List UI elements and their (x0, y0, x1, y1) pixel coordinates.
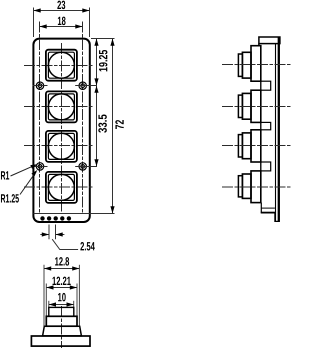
protrusion P4 base (251, 171, 261, 203)
dim 2.54 leader (52, 239, 78, 249)
hole column line right (82, 22, 84, 214)
button S3 circle (48, 133, 74, 159)
dim 23 extension lines (34, 8, 90, 38)
dim 18 arrows (40, 24, 83, 28)
text 33.5 (98, 115, 107, 133)
protrusion P4 cap (238, 176, 242, 197)
text 2.54 (80, 242, 94, 251)
protrusion P1 tip (242, 52, 251, 78)
dim 2.54 arrows (42, 232, 63, 236)
button S3 inner square (48, 133, 74, 159)
bottom view step block (46, 316, 77, 326)
bottom view trapezoid (43, 326, 82, 336)
text 19.25 (99, 50, 108, 71)
mounting hole row1 right (75, 82, 97, 89)
side center line S4 (222, 186, 291, 188)
tab T1 (261, 81, 271, 90)
front body bottom strip line / 72 lower extension (34, 213, 115, 215)
text 18 (58, 17, 66, 26)
mounting hole row1 left (33, 82, 48, 89)
tab T3 (261, 162, 271, 171)
hole column line left (39, 22, 41, 214)
text 12.8 (55, 257, 69, 266)
text R1 (1, 171, 9, 179)
protrusion P1 base (251, 46, 261, 81)
front vertical center line (61, 43, 63, 214)
button S1 circle (48, 52, 74, 78)
protrusion P4 tip (242, 174, 251, 198)
side center line S3 (222, 145, 291, 147)
text 10 (58, 293, 66, 302)
text 12.21 (53, 277, 71, 285)
side view plate thick edge (278, 37, 280, 221)
protrusion P1 cap (238, 54, 242, 76)
dim 10 arrows (49, 302, 74, 306)
right top extension line (91, 38, 115, 40)
bottom view tip block (49, 307, 74, 316)
protrusion P3 cap (238, 135, 242, 157)
button S3 outer square (46, 131, 77, 162)
button S2 circle (48, 94, 74, 120)
button S1 outer square (46, 50, 77, 81)
button S1 inner square (48, 52, 74, 78)
bottom view base (31, 336, 90, 346)
button S4 outer square (46, 172, 77, 203)
side view plate thin line (275, 43, 277, 221)
tab T2 (261, 122, 271, 129)
text R1.25 (1, 194, 19, 203)
dim arrows 19.25 / 33.5 (94, 39, 98, 167)
dim arrows 72 (110, 39, 114, 214)
mounting hole row2 left (33, 163, 48, 170)
button S4 center line (24, 186, 93, 188)
button S2 center line (24, 106, 93, 108)
protrusion P3 base (251, 130, 261, 162)
side center line S1 (222, 64, 291, 66)
text 23 (57, 1, 65, 10)
button S2 outer square (46, 91, 77, 122)
dim 12.21 extension lines (46, 284, 77, 318)
dim 12.8 arrows (44, 266, 79, 270)
button S1 center line (24, 65, 93, 67)
dim 18 line (40, 26, 83, 28)
pin row dots (40, 216, 71, 220)
leader R1.25 (20, 172, 36, 195)
button S4 circle (48, 174, 74, 200)
dim line 19.25 / 33.5 (96, 39, 98, 167)
side view top cap (259, 37, 280, 44)
dim 23 arrows (34, 8, 90, 12)
side view plate bottom tail (275, 213, 280, 222)
side center line S2 (222, 106, 291, 108)
side view face line (260, 46, 262, 203)
bottom view center line (61, 306, 63, 348)
front view body (33, 39, 89, 222)
dim 12.21 arrows (46, 285, 77, 289)
protrusion P2 tip (242, 93, 251, 119)
text 72 (115, 120, 123, 129)
button S3 center line (24, 145, 93, 147)
protrusion P3 tip (242, 133, 251, 159)
button S4 inner square (48, 174, 74, 200)
dim line 72 (112, 39, 114, 214)
side view bottom band (260, 203, 262, 213)
mounting hole row2 right (75, 163, 97, 170)
leader R1 (11, 165, 36, 176)
dim 2.54 extension lines (40, 225, 64, 240)
dim 12.8 extension lines (44, 265, 79, 326)
dim 10 extension lines (49, 301, 74, 309)
button S2 inner square (48, 94, 74, 120)
protrusion P2 cap (238, 95, 242, 117)
side view cap-to-body connector (258, 44, 260, 47)
protrusion P2 base (251, 90, 261, 122)
